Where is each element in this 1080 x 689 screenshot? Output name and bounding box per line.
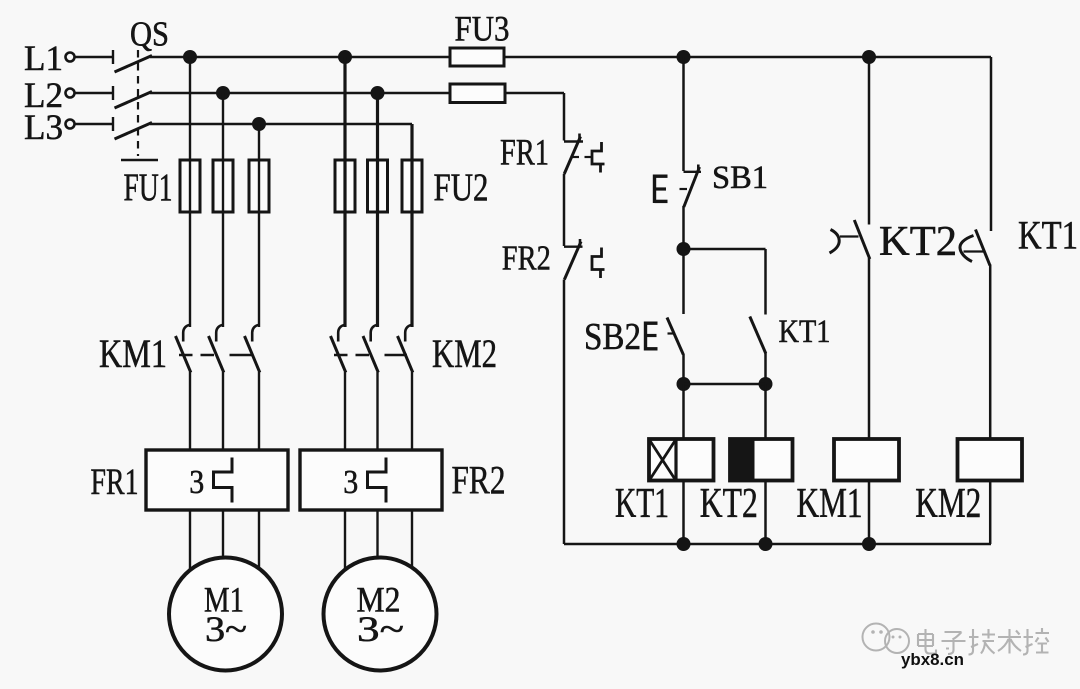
svg-text:KM2: KM2 — [915, 481, 981, 527]
svg-text:QS: QS — [130, 15, 169, 54]
svg-text:KM2: KM2 — [432, 331, 497, 376]
svg-text:FR2: FR2 — [452, 458, 506, 503]
svg-text:L1: L1 — [24, 38, 63, 78]
svg-text:FU1: FU1 — [124, 166, 173, 209]
svg-text:FU2: FU2 — [434, 166, 489, 209]
svg-text:KM1: KM1 — [99, 331, 167, 376]
svg-text:3: 3 — [189, 464, 204, 501]
svg-text:ybx8.cn: ybx8.cn — [901, 650, 964, 669]
svg-text:KT1: KT1 — [1018, 213, 1078, 258]
svg-text:KT2: KT2 — [700, 481, 758, 527]
svg-text:KT2: KT2 — [879, 219, 957, 265]
svg-text:KT1: KT1 — [615, 481, 669, 527]
svg-text:3~: 3~ — [357, 609, 404, 649]
svg-text:L3: L3 — [24, 107, 63, 147]
svg-text:SB2: SB2 — [584, 316, 641, 358]
svg-text:FU3: FU3 — [455, 9, 510, 49]
svg-text:SB1: SB1 — [712, 160, 768, 196]
svg-text:FR1: FR1 — [500, 133, 549, 174]
svg-text:3: 3 — [343, 464, 358, 501]
svg-text:KM1: KM1 — [797, 481, 863, 527]
svg-text:FR1: FR1 — [91, 462, 139, 503]
svg-text:KT1: KT1 — [779, 314, 831, 350]
svg-text:FR2: FR2 — [502, 239, 551, 278]
svg-text:3~: 3~ — [205, 609, 247, 649]
